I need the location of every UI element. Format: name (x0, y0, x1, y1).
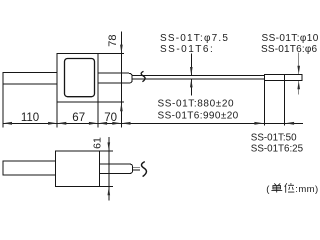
dim 110 right / 67 left arrows at 57.2 (48, 122, 57, 125)
arrows at 121.4 (112, 122, 121, 125)
kanji 単 (274, 183, 280, 185)
78 dim up arrow (120, 102, 123, 111)
kanji 単位 drawn as strokes (271, 183, 294, 193)
cable break squiggle (top view) (141, 71, 145, 81)
svg-text::mm): :mm) (295, 184, 318, 195)
phi10 down arrow (297, 66, 300, 75)
61 dim vertical line (108, 137, 110, 201)
phi7.5 up arrow (190, 79, 193, 88)
stem (cable boot) (98, 73, 132, 83)
arrowheads (3, 45, 300, 196)
inner rounded rect (65, 59, 95, 97)
leader phi10 lower (298, 81, 300, 95)
svg-text:SS-01T6:: SS-01T6: (160, 44, 214, 55)
cable stub (133, 166, 140, 168)
cable (132, 75, 264, 77)
svg-text:SS-01T:φ7.5: SS-01T:φ7.5 (160, 33, 229, 44)
phi10 up arrow (297, 81, 300, 90)
kanji 位 (285, 183, 287, 193)
svg-text:SS-01T6:990±20: SS-01T6:990±20 (158, 111, 239, 122)
50 dim left-pointing arrow at 285 (285, 122, 294, 125)
handle rect (3, 161, 56, 175)
leader phi7.5 lower (190, 79, 192, 96)
61 dim down arrow (108, 142, 111, 151)
svg-text:78: 78 (107, 34, 119, 46)
svg-text:67: 67 (72, 112, 85, 124)
main dimension line (3, 122, 303, 124)
bottom ext line y=186.7 (100, 186, 114, 188)
ext from tip left edge (263, 81, 265, 126)
svg-text:70: 70 (104, 112, 117, 124)
body block (56, 151, 100, 187)
svg-text:61: 61 (91, 137, 103, 149)
ext lines down to dim line (2, 84, 4, 127)
handle rect (3, 72, 57, 84)
tip internal line / ext (284, 75, 286, 126)
svg-text:SS-01T:880±20: SS-01T:880±20 (158, 98, 235, 109)
cable break squiggle (bottom view) (141, 162, 146, 177)
880 right arrow at 263.5 (254, 122, 263, 125)
61 dim up arrow (108, 187, 111, 196)
leader phi10 upper (298, 53, 300, 75)
arrows at 98 (89, 122, 98, 125)
stem (100, 164, 133, 174)
sensor tip (264, 75, 302, 81)
svg-text:SS-01T:50: SS-01T:50 (251, 132, 297, 143)
svg-text:SS-01T:φ10: SS-01T:φ10 (262, 33, 319, 44)
block bottom ext (98, 101, 124, 103)
svg-text:SS-01T6:25: SS-01T6:25 (251, 144, 304, 155)
svg-text:SS-01T6:φ6: SS-01T6:φ6 (261, 44, 318, 55)
svg-text:110: 110 (21, 112, 39, 124)
leader phi7.5 upper (190, 54, 192, 76)
body block (57, 54, 98, 102)
phi7.5 down arrow (190, 67, 193, 76)
vertical line x=121.7 (70 right bound + 78 dim) (120, 32, 122, 128)
dim 110 left arrow (3, 122, 12, 125)
top ext line y=151 (100, 150, 114, 152)
top ext line y=53.7 (98, 53, 124, 55)
78 dim down arrow (120, 45, 123, 54)
